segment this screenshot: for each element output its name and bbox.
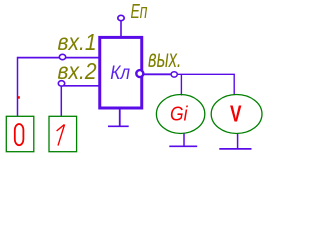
svg-text:Еп: Еп [131,1,148,23]
ground under V: stem [237,134,239,149]
switch block Кл rectangle [100,37,142,108]
ground under V: bar [219,148,251,150]
svg-text:вх.2: вх.2 [58,58,97,84]
wire: tap down to Gi [180,74,182,95]
output terminal circle on block right edge [136,70,143,77]
ground under block: stem [119,109,121,126]
node вх.2 terminal circle [58,81,64,86]
node вых. terminal circle [171,72,177,77]
digit 1 [57,124,65,145]
ground under block: bar [108,125,129,127]
voltmeter V ellipse [211,95,262,134]
ground under Gi: stem [183,134,185,147]
svg-text:Кл: Кл [110,63,130,84]
node вх.1 terminal circle [59,54,65,59]
svg-text:вх.1: вх.1 [58,29,97,55]
source box 1 [49,116,77,151]
ground under Gi: bar [169,145,197,147]
wire: vertical from box 0 up to вх.1 line [17,57,19,117]
wire: thin output line to the right [177,73,235,75]
source box 0 [6,116,34,151]
red marker dot on left wire [18,96,20,99]
svg-text:Gi: Gi [170,104,188,126]
digit 0 [15,124,24,145]
wire: вх.1 horizontal line to block [18,57,100,59]
svg-text:вых.: вых. [148,45,182,73]
wire: tap down to V [233,74,235,95]
wire: thick output segment [144,73,173,75]
node Еп terminal circle [118,15,124,20]
wire: вх.2 horizontal line to block [62,85,100,87]
generator Gi ellipse [156,95,204,134]
wire: Еп stem above block [120,21,122,37]
wire: vertical from box 1 up to вх.2 node [60,84,62,116]
svg-text:V: V [230,101,242,127]
